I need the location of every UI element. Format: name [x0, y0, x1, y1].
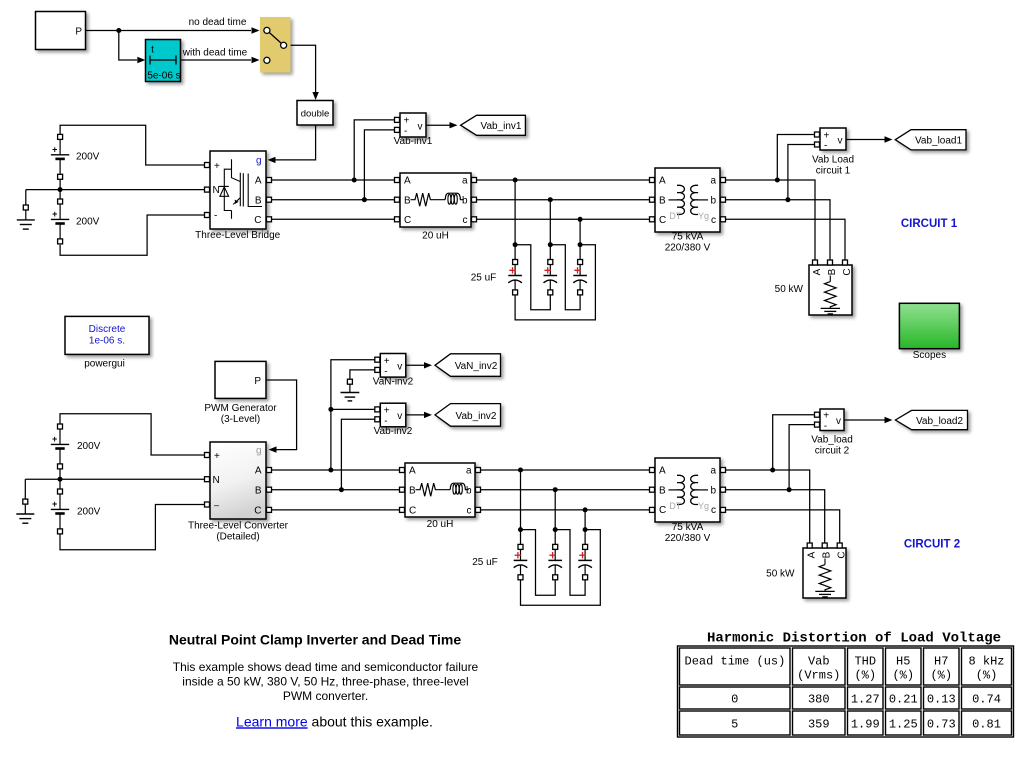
svg-text:+: +: [384, 356, 390, 367]
svg-text:+: +: [52, 144, 57, 154]
ground circuit2: [16, 499, 34, 523]
svg-text:VaN_inv2: VaN_inv2: [455, 361, 498, 372]
node load b tap circuit2: [787, 487, 792, 492]
wire junction to Vab-inv2 +: [331, 408, 375, 410]
svg-text:(%): (%): [892, 668, 914, 682]
svg-text:This example shows dead time a: This example shows dead time and semicon…: [173, 660, 479, 674]
svg-text:C: C: [837, 551, 848, 558]
wire VaN-inv2 - to ground: [350, 370, 375, 379]
table cell row1 H5 = 0.21: [886, 687, 922, 709]
ground VaN-inv2: [341, 379, 360, 401]
data type conversion block double: [297, 101, 333, 126]
transformer2 c port: [721, 507, 726, 512]
wire phase b down to cap2: [549, 200, 551, 260]
node phase a cap tap circuit1: [513, 178, 518, 183]
svg-text:powergui: powergui: [84, 358, 125, 369]
table title Harmonic Distortion of Load Voltage: [707, 630, 1001, 646]
dc voltage source 200V lower circuit1: [51, 199, 69, 244]
dc voltage source 200V lower circuit2: [51, 489, 69, 534]
svg-text:0.73: 0.73: [927, 717, 956, 731]
svg-text:-: -: [214, 210, 217, 221]
wire bridge B to choke B: [272, 199, 395, 201]
bridge B port: [267, 197, 272, 202]
Vab_load2 - port: [815, 422, 820, 427]
node load a tap circuit2: [770, 468, 775, 473]
svg-text:DT: DT: [669, 501, 681, 511]
svg-text:Vab_load: Vab_load: [811, 434, 853, 445]
wire battery midpoint circuit1: [59, 179, 61, 199]
table header cell H5: [886, 648, 922, 685]
three-level bridge block U1: [210, 151, 266, 229]
node A tap circuit1: [352, 178, 357, 183]
wire transformer2 a to load2 A: [726, 470, 810, 543]
svg-text:+: +: [52, 209, 57, 219]
label CIRCUIT 2: [904, 539, 960, 551]
table header cell THD: [848, 648, 884, 685]
wire phase b circuit2: [481, 489, 653, 491]
capacitor 25uF phase c circuit1: [573, 260, 587, 295]
svg-text:VaN-inv2: VaN-inv2: [373, 376, 414, 387]
svg-text:75 kVA: 75 kVA: [672, 522, 704, 533]
wire battery1 minus to bridge -: [60, 215, 204, 255]
svg-text:220/380 V: 220/380 V: [665, 243, 711, 254]
svg-text:1.99: 1.99: [851, 717, 880, 731]
choke1 c port: [472, 217, 477, 222]
table cell row2 8 kHz = 0.81: [962, 711, 1012, 735]
svg-text:(%): (%): [930, 668, 952, 682]
label 75 kVA circuit2: [672, 522, 704, 533]
transformer2 C port: [650, 507, 655, 512]
ground circuit1: [17, 205, 35, 229]
svg-text:+: +: [214, 451, 220, 462]
svg-text:(Vrms): (Vrms): [797, 668, 840, 682]
transformer1 B port: [650, 197, 655, 202]
three-level converter detailed block: [210, 442, 266, 519]
svg-text:Vab_load1: Vab_load1: [915, 135, 963, 146]
svg-text:c: c: [467, 506, 472, 517]
svg-text:v: v: [838, 136, 843, 147]
wire phase b down to cap5: [554, 490, 556, 545]
transformer1 a port: [721, 178, 726, 183]
label 25 uF circuit1: [471, 272, 497, 283]
load2 A port: [807, 543, 812, 548]
transport delay block 5e-06: [146, 40, 181, 82]
svg-text:200V: 200V: [77, 441, 101, 452]
wire bridge A to choke A: [272, 179, 395, 181]
svg-text:C: C: [409, 506, 416, 517]
wire phase c circuit2: [481, 509, 653, 511]
voltage measurement Vab-inv1: [400, 113, 426, 137]
svg-text:(%): (%): [854, 668, 876, 682]
three-phase load 50 kW circuit2: [803, 548, 848, 598]
wire junction to transport delay: [119, 31, 137, 61]
wire transport delay to switch bottom input: [181, 59, 252, 61]
svg-text:-: -: [824, 421, 827, 432]
svg-text:+: +: [823, 411, 829, 422]
svg-text:N: N: [213, 185, 220, 196]
svg-text:Three-Level Converter: Three-Level Converter: [188, 521, 289, 532]
wire bridge C to choke C: [272, 218, 395, 220]
table header cell H7: [924, 648, 960, 685]
wire converter B to choke2 B: [272, 489, 400, 491]
scopes subsystem block: [899, 303, 959, 348]
Vab-inv1 + port: [395, 117, 400, 122]
wire Vab Load1 to goto tag: [846, 139, 885, 141]
capacitor 25uF phase b circuit2: [548, 544, 562, 579]
label 20 uH circuit1: [422, 231, 449, 242]
svg-text:+: +: [214, 161, 220, 172]
svg-text:c: c: [711, 215, 716, 226]
svg-text:circuit 1: circuit 1: [816, 166, 851, 177]
wire switch to double block: [291, 45, 316, 96]
svg-text:H7: H7: [934, 654, 948, 668]
svg-text:b: b: [462, 195, 468, 206]
wire phase b circuit1: [477, 199, 653, 201]
svg-text:CIRCUIT 1: CIRCUIT 1: [901, 218, 958, 230]
PWM generator block: [215, 361, 266, 398]
three-phase series RL branch 20 uH circuit1: [400, 173, 471, 227]
svg-text:200V: 200V: [76, 216, 100, 227]
svg-text:N: N: [213, 475, 220, 486]
dc voltage source 200V upper circuit2: [51, 424, 69, 469]
svg-text:-: -: [824, 141, 827, 152]
Vab-inv2 - port: [375, 417, 380, 422]
svg-text:c: c: [463, 215, 468, 226]
wire phase c down to cap6: [584, 510, 586, 545]
manual switch block: [260, 17, 291, 73]
label 20 uH circuit2: [427, 519, 454, 530]
voltage measurement Vab_load circuit 2: [820, 409, 844, 432]
svg-text:+: +: [404, 116, 410, 127]
label 200V upper circuit2: [77, 441, 101, 452]
svg-text:A: A: [404, 176, 411, 187]
svg-text:0.21: 0.21: [889, 692, 918, 706]
label with dead time: [182, 48, 248, 59]
wire B tap to Vab-inv1 -: [364, 130, 394, 200]
voltage measurement Vab Load circuit 1: [820, 128, 846, 152]
choke1 b port: [472, 197, 477, 202]
node cap4 top junction: [518, 527, 523, 532]
table header cell 8 kHz: [962, 648, 1012, 685]
arrowhead into switch bottom input: [252, 57, 260, 63]
svg-text:Yg: Yg: [698, 501, 709, 511]
node load a tap circuit1: [775, 178, 780, 183]
label Scopes: [913, 350, 946, 361]
load2 B port: [822, 543, 827, 548]
wire Vab-inv1 to goto tag: [426, 124, 450, 126]
svg-text:Vab_inv1: Vab_inv1: [481, 121, 522, 132]
svg-text:Three-Level Bridge: Three-Level Bridge: [195, 230, 280, 241]
title Neutral Point Clamp Inverter and Dead Time: [169, 632, 461, 648]
svg-text:c: c: [711, 505, 716, 516]
transformer2 B port: [650, 487, 655, 492]
svg-text:PWM Generator: PWM Generator: [204, 403, 277, 414]
svg-text:Scopes: Scopes: [913, 350, 946, 361]
goto tag VaN_inv2: [435, 354, 501, 377]
transformer1 b port: [721, 197, 726, 202]
label 25 uF circuit2: [472, 557, 498, 568]
svg-text:g: g: [256, 156, 262, 167]
pulse source block P: [36, 12, 86, 50]
load1 C port: [843, 260, 848, 265]
svg-text:0.74: 0.74: [972, 692, 1001, 706]
label 200V lower circuit2: [77, 506, 101, 517]
svg-text:5e-06 s: 5e-06 s: [147, 71, 180, 82]
svg-text:B: B: [822, 551, 833, 558]
svg-text:B: B: [659, 195, 666, 206]
svg-text:CIRCUIT 2: CIRCUIT 2: [904, 539, 960, 551]
arrowhead into Vab_load1 tag: [885, 136, 893, 142]
table cell row1 8 kHz = 0.74: [962, 687, 1012, 709]
svg-text:+: +: [384, 406, 390, 417]
choke2 C port: [400, 507, 405, 512]
wire phase a node to cap5 bottom: [521, 530, 556, 596]
svg-text:A: A: [255, 466, 262, 477]
node load b tap circuit1: [785, 197, 790, 202]
choke2 a port: [476, 468, 481, 473]
bridge + port: [205, 163, 210, 168]
node B tap circuit2: [339, 487, 344, 492]
wire phase a down to cap1: [514, 180, 516, 260]
svg-text:A: A: [807, 551, 818, 558]
svg-text:Neutral Point Clamp Inverter a: Neutral Point Clamp Inverter and Dead Ti…: [169, 632, 461, 648]
Vab Load1 - port: [815, 142, 820, 147]
svg-text:0.13: 0.13: [927, 692, 956, 706]
arrowhead into switch top input: [252, 27, 260, 33]
svg-text:g: g: [256, 445, 262, 456]
Vab-inv2 + port: [375, 407, 380, 412]
wire transformer1 a to load1 A: [726, 180, 816, 260]
voltage measurement VaN-inv2: [380, 354, 406, 378]
label Vab Load circuit 1: [812, 155, 854, 177]
svg-text:0.81: 0.81: [972, 717, 1001, 731]
three-phase series RL branch 20 uH circuit2: [405, 463, 475, 517]
label 75 kVA circuit1: [672, 232, 704, 243]
description paragraph: [173, 660, 479, 703]
transformer1 A port: [650, 178, 655, 183]
svg-text:Learn more about this example.: Learn more about this example.: [236, 713, 433, 729]
table header cell Vab: [793, 648, 846, 685]
wire cap3 bottom to phase b node: [550, 245, 580, 310]
label powergui: [84, 358, 125, 369]
wire b tap to Vab_load2 -: [789, 425, 814, 490]
svg-text:B: B: [659, 485, 666, 496]
svg-text:A: A: [659, 176, 666, 187]
svg-text:t: t: [151, 45, 154, 56]
svg-text:(%): (%): [976, 668, 998, 682]
wire phase a node to cap2 bottom: [515, 245, 550, 310]
label VaN-inv2: [373, 376, 414, 387]
wire phase a circuit1: [477, 179, 653, 181]
wire phase a down to cap4: [520, 470, 522, 545]
wire Vab-inv2 to goto tag: [406, 414, 424, 416]
svg-text:B: B: [827, 268, 838, 275]
arrowhead into Vab_load2 tag: [885, 417, 893, 423]
table cell row2 Vab = 359: [793, 711, 846, 735]
node phase a cap tap circuit2: [518, 468, 523, 473]
Vab_load2 + port: [815, 412, 820, 417]
svg-text:(3-Level): (3-Level): [221, 414, 260, 425]
capacitor 25uF phase c circuit2: [578, 544, 592, 579]
svg-text:–: –: [214, 500, 219, 510]
transformer 75 kVA circuit1: [655, 168, 720, 232]
svg-text:+: +: [52, 434, 57, 444]
svg-text:25 uF: 25 uF: [471, 272, 497, 283]
three-phase load 50 kW circuit1: [809, 265, 853, 315]
arrowhead into double block: [312, 92, 318, 100]
svg-text:b: b: [710, 485, 716, 496]
voltage measurement Vab-inv2: [380, 403, 406, 427]
svg-text:5: 5: [731, 717, 738, 731]
svg-text:B: B: [255, 195, 262, 206]
table outer border: [678, 646, 1014, 737]
svg-text:C: C: [404, 215, 411, 226]
node pulse branch junction: [116, 28, 121, 33]
dc voltage source 200V upper circuit1: [51, 134, 69, 179]
arrowhead into converter g port: [269, 446, 277, 452]
svg-text:(Detailed): (Detailed): [216, 532, 259, 543]
label Vab_load circuit 2: [811, 434, 853, 456]
load1 A port: [813, 260, 818, 265]
transformer2 A port: [650, 468, 655, 473]
svg-text:H5: H5: [896, 654, 910, 668]
node phase c cap tap circuit2: [583, 507, 588, 512]
svg-text:380: 380: [808, 692, 830, 706]
wire transformer2 c to load2 C: [726, 510, 840, 543]
table cell row2 Dead time (us) = 5: [680, 711, 791, 735]
goto tag Vab_load2: [895, 410, 967, 429]
wire battery midpoint circuit2: [59, 469, 61, 489]
svg-text:v: v: [836, 416, 841, 427]
svg-text:Vab_load2: Vab_load2: [916, 416, 964, 427]
svg-text:Discrete: Discrete: [89, 324, 126, 335]
goto tag Vab_load1: [895, 130, 966, 150]
wire cap1 bottom to phase c node: [515, 245, 595, 320]
svg-text:b: b: [466, 485, 472, 496]
table header cell Dead time (us): [680, 648, 791, 685]
wire cap6 bottom to phase b node: [555, 530, 585, 596]
svg-text:a: a: [466, 466, 472, 477]
svg-text:A: A: [409, 466, 416, 477]
svg-text:200V: 200V: [77, 506, 101, 517]
converter + port: [205, 453, 210, 458]
choke1 A port: [395, 178, 400, 183]
table cell row2 H7 = 0.73: [924, 711, 960, 735]
table cell row1 Vab = 380: [793, 687, 846, 709]
load1 B port: [828, 260, 833, 265]
svg-text:75 kVA: 75 kVA: [672, 232, 704, 243]
svg-text:25 uF: 25 uF: [472, 557, 498, 568]
wire phase a circuit2: [481, 469, 653, 471]
converter C port: [267, 507, 272, 512]
svg-text:+: +: [52, 499, 57, 509]
svg-text:A: A: [255, 176, 262, 187]
wire Vab_load2 to goto tag: [844, 419, 885, 421]
converter A port: [267, 468, 272, 473]
svg-text:DT: DT: [669, 211, 681, 221]
svg-text:v: v: [418, 121, 423, 132]
Vab Load1 + port: [815, 132, 820, 137]
svg-text:THD: THD: [854, 654, 876, 668]
svg-text:v: v: [397, 411, 402, 422]
transformer2 b port: [721, 487, 726, 492]
label no dead time: [189, 17, 247, 28]
svg-text:A: A: [659, 466, 666, 477]
svg-text:1.25: 1.25: [889, 717, 918, 731]
svg-text:20 uH: 20 uH: [422, 231, 449, 242]
wire transformer1 c to load1 C: [726, 219, 846, 260]
svg-text:Vab: Vab: [808, 654, 830, 668]
VaN-inv2 + port: [375, 357, 380, 362]
node phase b cap tap circuit1: [548, 197, 553, 202]
label Three-Level Converter (Detailed): [188, 521, 289, 543]
node B tap circuit1: [362, 197, 367, 202]
choke2 A port: [400, 468, 405, 473]
svg-text:Harmonic Distortion of Load Vo: Harmonic Distortion of Load Voltage: [707, 630, 1001, 646]
bridge N port: [205, 187, 210, 192]
svg-text:C: C: [659, 505, 666, 516]
svg-text:50 kW: 50 kW: [766, 569, 795, 580]
wire battery2 plus to converter +: [60, 414, 205, 455]
label 50 kW circuit1: [775, 284, 804, 295]
capacitor 25uF phase a circuit2: [514, 544, 528, 579]
svg-text:C: C: [254, 505, 261, 516]
svg-text:circuit 2: circuit 2: [815, 445, 850, 456]
svg-text:P: P: [75, 26, 82, 37]
transformer2 a port: [721, 468, 726, 473]
label 220/380 V circuit2: [665, 533, 711, 544]
svg-text:a: a: [710, 466, 716, 477]
svg-text:double: double: [301, 108, 330, 119]
wire to ground circuit1: [25, 190, 27, 205]
node cap5 top junction: [553, 527, 558, 532]
svg-text:1.27: 1.27: [851, 692, 880, 706]
svg-text:Yg: Yg: [698, 211, 709, 221]
svg-text:with dead time: with dead time: [182, 48, 248, 59]
table cell row2 H5 = 1.25: [886, 711, 922, 735]
wire PWM P to converter gate: [266, 380, 297, 450]
wire Vab-inv2 - to B tap: [341, 419, 374, 489]
svg-text:Vab_inv2: Vab_inv2: [456, 411, 497, 422]
svg-text:B: B: [255, 485, 262, 496]
svg-text:220/380 V: 220/380 V: [665, 533, 711, 544]
table cell row1 Dead time (us) = 0: [680, 687, 791, 709]
wire neutral N circuit2: [25, 478, 204, 480]
svg-text:Vab-inv1: Vab-inv1: [394, 136, 433, 147]
svg-text:+: +: [824, 130, 830, 141]
svg-text:0: 0: [731, 692, 738, 706]
converter - port: [205, 502, 210, 507]
svg-text:8 kHz: 8 kHz: [968, 654, 1004, 668]
wire neutral N circuit1: [26, 189, 205, 191]
svg-text:b: b: [710, 195, 716, 206]
transformer1 c port: [721, 217, 726, 222]
choke2 b port: [476, 487, 481, 492]
load2 C port: [837, 543, 842, 548]
node cap1 top junction: [513, 242, 518, 247]
svg-text:A: A: [812, 268, 823, 275]
label Vab-inv1: [394, 136, 433, 147]
svg-text:20 uH: 20 uH: [427, 519, 454, 530]
wire A tap to VaN-inv2 +: [331, 360, 375, 470]
arrowhead into Vab_inv1 tag: [450, 122, 458, 128]
svg-text:inside a 50 kW, 380 V, 50 Hz,: inside a 50 kW, 380 V, 50 Hz, three-phas…: [182, 674, 468, 688]
svg-text:a: a: [462, 176, 468, 187]
label CIRCUIT 1: [901, 218, 958, 230]
bridge A port: [267, 178, 272, 183]
svg-text:no dead time: no dead time: [189, 17, 247, 28]
table cell row2 THD = 1.99: [848, 711, 884, 735]
